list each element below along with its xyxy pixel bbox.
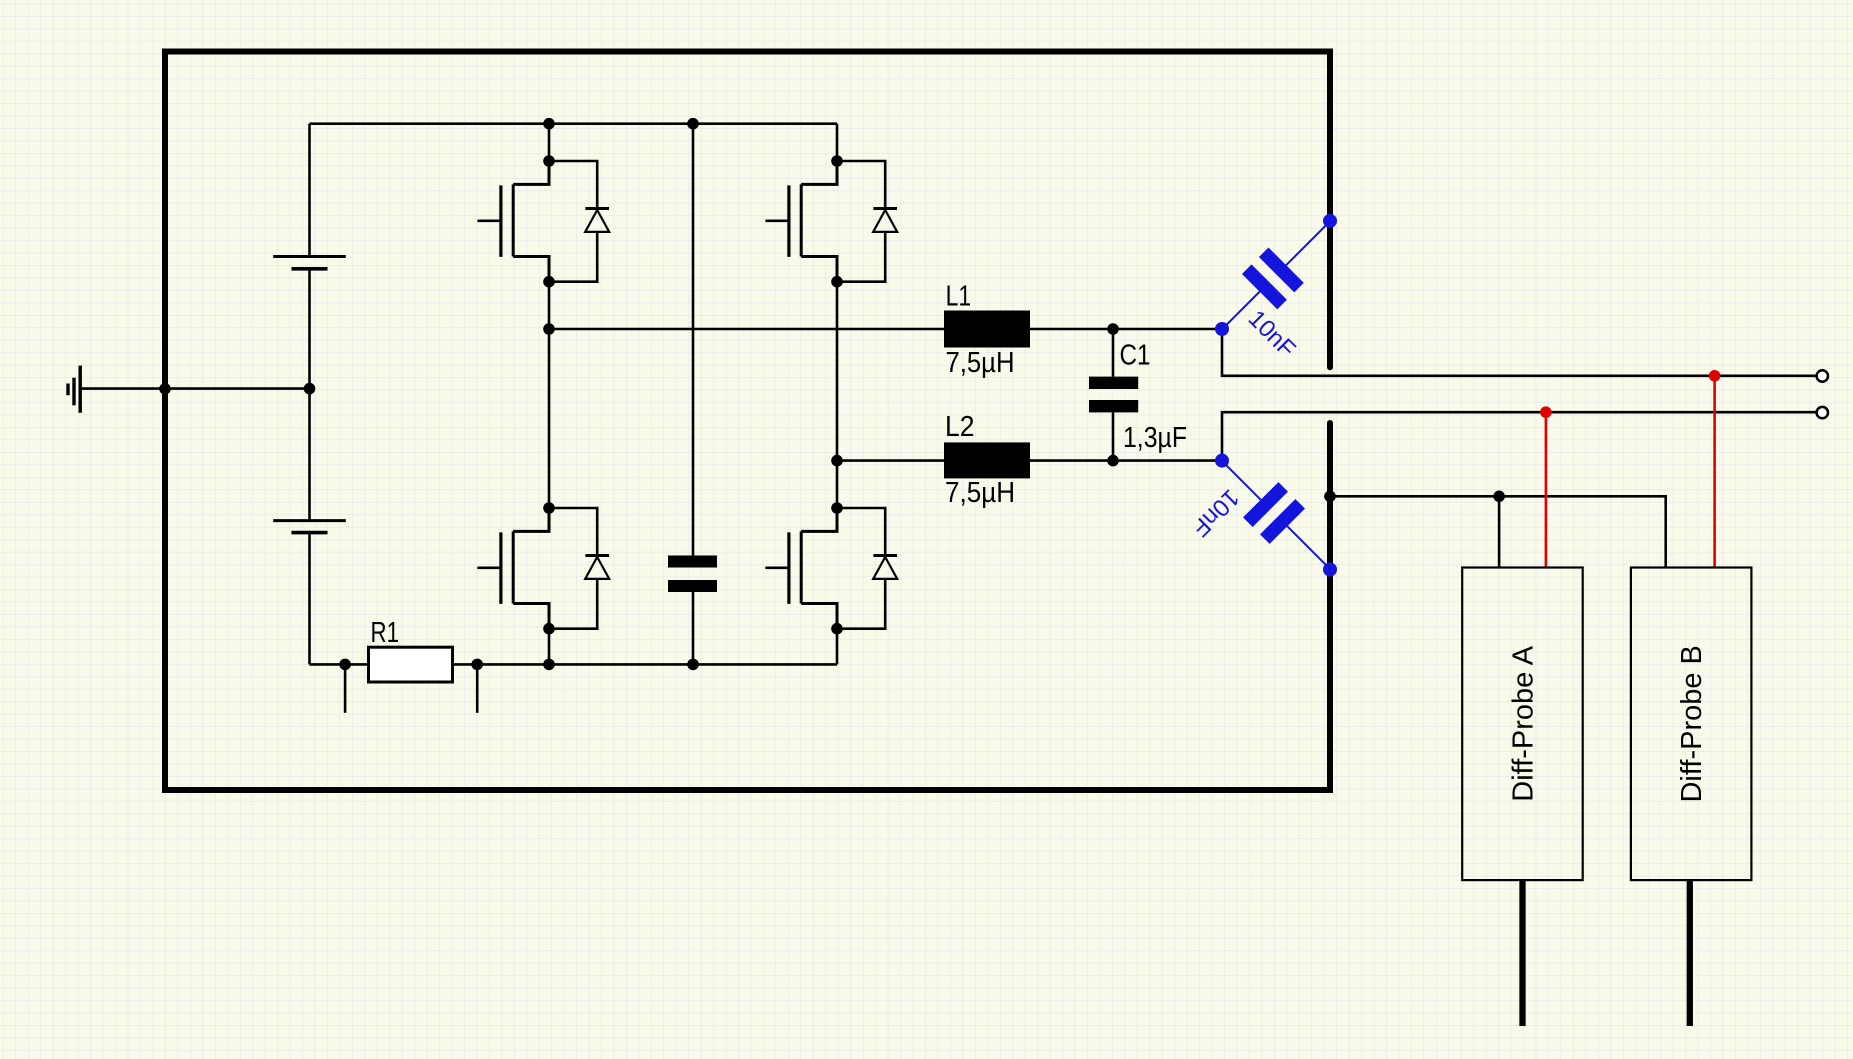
resistor R1 <box>369 647 453 682</box>
node bottom bus pin1 <box>339 659 351 671</box>
red wire probe A positive <box>1545 412 1548 567</box>
wire center column <box>692 124 695 665</box>
node top bus left half-bridge <box>543 118 555 130</box>
node blue upper right (shield) <box>1323 214 1337 228</box>
node bottom bus center <box>687 659 699 671</box>
Diff-Probe B box <box>1631 568 1752 881</box>
capacitor C1 <box>1089 329 1138 461</box>
node blue lower right (shield) <box>1323 563 1337 577</box>
node bottom bus left half-bridge <box>543 659 555 671</box>
pin stub 2 <box>476 664 479 712</box>
battery B2 (lower) <box>273 521 346 533</box>
wire L2 left <box>837 459 944 462</box>
node C1 bottom <box>1107 455 1119 467</box>
wire L1 left <box>549 328 944 331</box>
wire right column <box>836 124 839 665</box>
inductor L1 <box>944 311 1030 348</box>
node L2 branch <box>831 455 843 467</box>
MOSFET Q2 (top right) <box>765 155 897 287</box>
wire L2 right <box>1030 459 1222 462</box>
wire bottom bus <box>310 663 838 666</box>
node battery midpoint <box>304 383 316 395</box>
wire shield to probe grounds <box>1330 496 1666 567</box>
wire left column (drain/source links) <box>548 124 551 665</box>
node shield ground tap <box>1324 491 1336 503</box>
svg-text:1,3µF: 1,3µF <box>1123 422 1187 454</box>
node C1 top <box>1107 323 1119 335</box>
capacitor 10nF (upper, to shield) <box>1204 203 1348 347</box>
svg-text:L1: L1 <box>946 281 972 313</box>
Diff-Probe A cable stub <box>1519 880 1525 1026</box>
svg-text:L2: L2 <box>945 411 975 443</box>
MOSFET Q4 (bottom right) <box>765 502 897 634</box>
wire L1 right <box>1030 328 1222 331</box>
wire battery column <box>308 124 311 665</box>
red wire probe B positive <box>1713 376 1716 568</box>
svg-text:7,5µH: 7,5µH <box>946 347 1015 379</box>
DC link capacitor (center) <box>668 556 717 593</box>
svg-text:Diff-Probe A: Diff-Probe A <box>1508 645 1540 801</box>
terminal A <box>1817 370 1828 381</box>
node probe A ground branch <box>1493 491 1505 503</box>
node red probe A <box>1540 406 1552 418</box>
pin stub 1 <box>344 664 347 712</box>
MOSFET Q1 (top left) <box>477 155 609 287</box>
capacitor 10nF (lower, to shield) <box>1205 444 1349 588</box>
wire ground to shield and battery midpoint <box>80 387 309 390</box>
svg-text:R1: R1 <box>371 617 400 649</box>
terminal B <box>1817 407 1828 418</box>
node bottom bus pin2 <box>471 659 483 671</box>
node L1 branch <box>543 323 555 335</box>
node shield-ground <box>159 383 171 395</box>
ground <box>68 366 80 413</box>
svg-text:7,5µH: 7,5µH <box>945 477 1015 509</box>
node blue lower left <box>1215 454 1229 468</box>
svg-text:Diff-Probe B: Diff-Probe B <box>1676 645 1708 802</box>
wire top bus <box>310 122 838 125</box>
Diff-Probe A box <box>1462 568 1583 881</box>
wire output A (upper) <box>1222 329 1816 376</box>
Diff-Probe B cable stub <box>1687 880 1693 1026</box>
svg-text:C1: C1 <box>1120 340 1151 372</box>
MOSFET Q3 (bottom left) <box>477 502 609 634</box>
wire output B (lower) <box>1222 412 1816 460</box>
battery B1 (upper) <box>273 257 346 269</box>
node top bus center <box>687 118 699 130</box>
node red probe B <box>1709 370 1721 382</box>
shield enclosure border <box>165 52 1330 791</box>
node blue upper left <box>1215 322 1229 336</box>
inductor L2 <box>944 442 1030 478</box>
